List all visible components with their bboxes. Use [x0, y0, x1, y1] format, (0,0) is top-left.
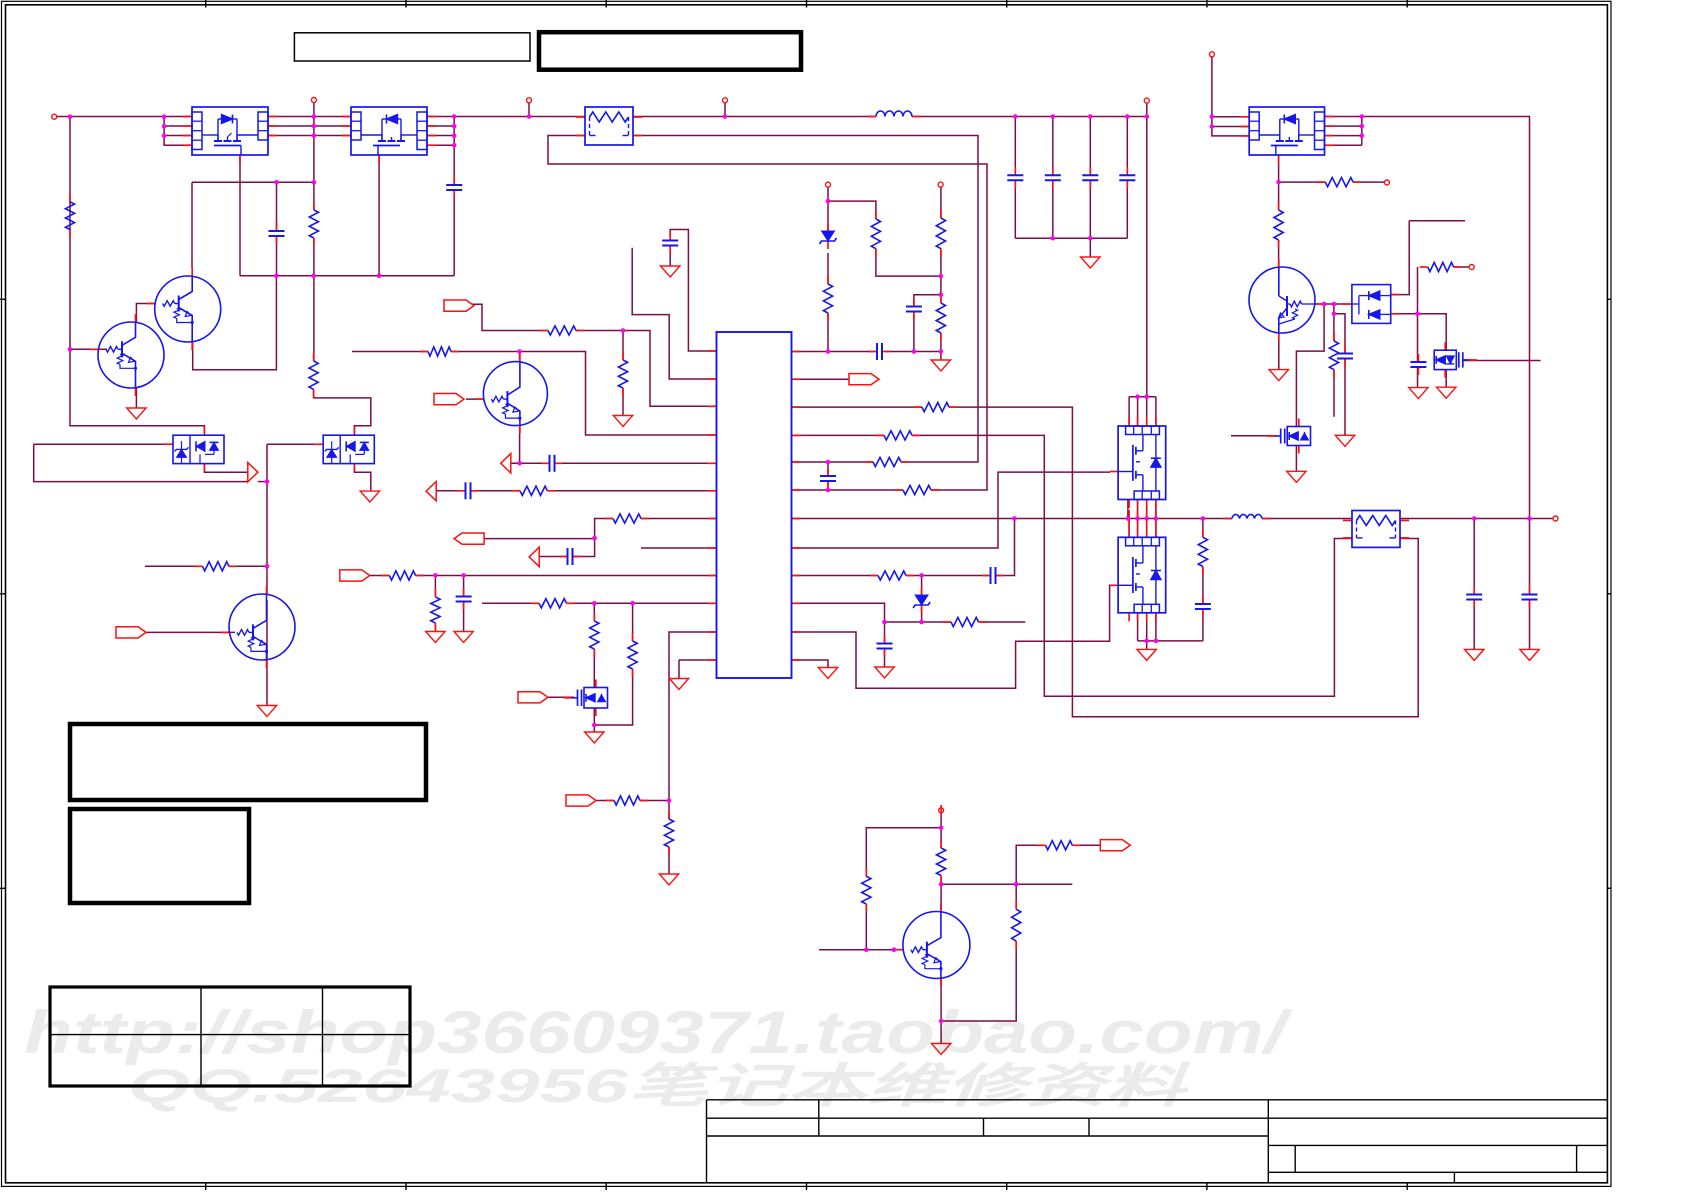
junction n17	[527, 114, 532, 119]
wire w125	[1202, 609, 1204, 641]
wire w26	[427, 144, 454, 146]
resistor R19	[420, 351, 428, 353]
transistor Q5	[221, 631, 229, 633]
junction n69	[1201, 516, 1206, 521]
resistor R14	[632, 633, 634, 641]
wire w64	[940, 352, 942, 361]
wire w112	[436, 490, 465, 492]
wire w156	[819, 949, 903, 951]
resistor R1	[65, 202, 74, 230]
wire w105	[352, 351, 428, 353]
resistor R35	[1428, 262, 1454, 271]
wire w129	[1529, 600, 1531, 650]
wire w35	[1014, 180, 1016, 238]
wire w49	[827, 462, 829, 476]
wire w1	[57, 116, 192, 118]
wire w171	[204, 464, 247, 473]
dual diode D7	[1352, 285, 1391, 324]
wire w79	[1353, 181, 1384, 183]
resistor R1	[69, 194, 71, 202]
resistor R13	[593, 613, 595, 621]
wire w55	[827, 313, 829, 352]
junction n33	[826, 199, 831, 204]
wire w174	[313, 276, 315, 361]
junction n64	[1012, 516, 1017, 521]
wire w112	[792, 472, 1111, 548]
wire w125	[641, 547, 717, 549]
zener diode D1	[822, 231, 835, 241]
wire w87	[1333, 370, 1335, 417]
wire w97	[1445, 370, 1447, 388]
wire w60	[914, 295, 941, 307]
wire w116	[641, 518, 717, 520]
wire w86	[1334, 314, 1345, 354]
wire w18	[453, 190, 455, 276]
wire w30	[633, 116, 876, 118]
junction n11	[311, 273, 316, 278]
wire w126	[482, 602, 539, 604]
junction n29	[1360, 114, 1365, 119]
junction n3	[162, 124, 167, 129]
resistor R5	[823, 284, 832, 313]
junction n47	[919, 573, 924, 578]
wire w127	[567, 602, 717, 604]
wire w162	[940, 979, 942, 1044]
wire w134	[792, 378, 850, 380]
transistor Q2	[155, 276, 221, 342]
wire w74	[1325, 144, 1362, 146]
wire w113	[471, 490, 520, 492]
resistor R19	[428, 347, 451, 356]
fuse F1	[576, 116, 585, 118]
wire w123	[463, 576, 465, 597]
mosfet U3	[1249, 107, 1324, 155]
junction n5	[312, 114, 317, 119]
wire w169	[34, 444, 249, 481]
wire w38	[1089, 117, 1091, 176]
wire w135	[640, 800, 669, 802]
junction n41	[517, 461, 522, 466]
wire w72	[1325, 125, 1362, 127]
resistor R23	[381, 575, 389, 577]
zener diode D2	[921, 587, 923, 595]
inductor L1	[876, 111, 912, 117]
zener diode D1	[827, 223, 829, 231]
capacitor C17	[549, 455, 551, 472]
junction n39	[517, 349, 522, 354]
resistor R27	[922, 403, 949, 412]
wire w52	[886, 351, 941, 353]
wire w68	[1212, 57, 1249, 136]
resistor R18	[1012, 909, 1021, 941]
wire w130	[912, 435, 1352, 696]
transistor Q6	[895, 949, 903, 951]
wire w155	[865, 904, 867, 950]
wire w47	[633, 136, 978, 463]
junction n8	[312, 180, 317, 185]
capacitor C10	[877, 643, 893, 645]
wire w81	[1409, 220, 1465, 222]
wire w157	[941, 883, 1072, 885]
wire w67	[632, 248, 716, 379]
junction n34	[939, 274, 944, 279]
wire w170	[258, 481, 267, 483]
wire w148	[884, 649, 886, 668]
label box 4	[70, 809, 249, 903]
wire w50	[827, 481, 829, 490]
wire w23	[427, 116, 454, 118]
wire w128	[1529, 519, 1531, 595]
label box 2	[539, 32, 801, 69]
wire w15	[276, 237, 278, 276]
wire w144	[996, 519, 1015, 576]
resistor R21	[512, 490, 520, 492]
wire w58	[940, 187, 942, 218]
capacitor C11	[1195, 603, 1211, 605]
pin	[52, 114, 57, 119]
capacitor C17	[542, 462, 550, 464]
current sense resistor R40	[1343, 520, 1352, 522]
wire w37	[1052, 180, 1054, 238]
wire w114	[547, 490, 716, 492]
wire w104	[622, 388, 624, 416]
wire w54	[827, 253, 829, 284]
IC U4 charger controller	[717, 332, 792, 678]
wire w123	[1202, 519, 1204, 538]
wire w116	[1155, 519, 1157, 538]
capacitor C1	[269, 230, 285, 232]
wire w63	[940, 333, 942, 352]
wire w21	[136, 304, 154, 323]
capacitor C6	[1089, 167, 1091, 175]
resistor R17	[937, 848, 946, 876]
capacitor C12	[1473, 587, 1475, 595]
junction n63	[1144, 394, 1149, 399]
wire w164	[266, 444, 268, 594]
resistor R3	[871, 219, 880, 249]
wire w126	[1473, 519, 1475, 595]
wire w95	[1417, 367, 1419, 387]
junction n68	[1154, 516, 1159, 521]
capacitor C2	[453, 177, 455, 185]
wire w168	[34, 443, 165, 445]
wire w175	[354, 464, 370, 492]
wire w151	[979, 621, 1026, 623]
junction n16	[452, 143, 457, 148]
capacitor C4	[1007, 174, 1023, 176]
resistor R25	[614, 796, 640, 805]
resistor R11	[1202, 529, 1204, 537]
wire w10	[313, 103, 315, 211]
wire w56	[828, 201, 876, 219]
junction n71	[1527, 516, 1532, 521]
junction n60	[1332, 312, 1337, 317]
resistor R21	[520, 486, 547, 495]
wire w138	[668, 847, 670, 874]
wire w132	[949, 407, 1418, 717]
resistor R31	[195, 565, 203, 567]
junction n14	[452, 124, 457, 129]
mosfet Q14	[1468, 359, 1477, 361]
port	[444, 300, 474, 311]
capacitor C14	[456, 596, 472, 598]
current sense resistor R40	[1352, 511, 1400, 548]
wire w152	[940, 813, 942, 848]
wire w107	[1129, 396, 1156, 398]
wire w118	[539, 556, 567, 558]
mosfet U1	[192, 107, 268, 155]
wire w99	[1295, 446, 1297, 472]
wire w9	[268, 135, 351, 137]
wire w100	[792, 518, 1233, 520]
wire w163	[146, 631, 235, 633]
wire w119	[1146, 613, 1148, 641]
transistor Q1	[90, 348, 98, 350]
junction n26	[1088, 236, 1093, 241]
wire w106	[1155, 397, 1157, 426]
resistor R12	[431, 597, 440, 623]
wire w42	[1015, 237, 1127, 239]
capacitor C21	[876, 343, 878, 360]
wire w129	[593, 649, 595, 688]
wire w145	[921, 576, 923, 596]
wire w61	[913, 312, 915, 352]
transistor Q1	[98, 322, 164, 388]
wire w29	[454, 116, 585, 118]
junction n76	[826, 460, 831, 465]
wire w106	[451, 352, 717, 436]
junction n7	[312, 133, 317, 138]
IC U4 pins	[708, 350, 717, 352]
wire w102	[1400, 518, 1553, 520]
junction n70	[1472, 516, 1477, 521]
wire w143	[906, 575, 991, 577]
wire w12	[192, 181, 314, 183]
wire w102	[576, 331, 717, 407]
resistor R7	[622, 352, 624, 360]
junction n27	[1210, 115, 1215, 120]
wire w96	[1463, 360, 1541, 362]
resistor R16	[865, 868, 867, 876]
resistor R30	[903, 485, 931, 494]
wire w20	[193, 276, 277, 370]
wire w19	[453, 117, 455, 186]
wire w120	[1155, 613, 1157, 641]
capacitor C16	[1344, 346, 1346, 354]
wire w159	[1072, 844, 1100, 846]
wire w25	[427, 135, 454, 137]
junction n42	[592, 536, 597, 541]
resistor R32	[870, 575, 878, 577]
resistor R3	[875, 211, 877, 219]
junction n57	[939, 1019, 944, 1024]
resistor R9	[1274, 210, 1283, 240]
zener diode D2	[915, 595, 928, 605]
ground	[127, 408, 146, 419]
wire w101	[1262, 518, 1352, 520]
wire w109	[466, 398, 484, 400]
junction n40	[621, 328, 626, 333]
wire w165	[266, 600, 268, 706]
svg-text:QQ.52643956笔记本维修资料: QQ.52643956笔记本维修资料	[128, 1059, 1192, 1112]
wire w121	[434, 576, 436, 598]
wire w92	[1454, 266, 1469, 268]
junction n55	[939, 882, 944, 887]
label box 1	[294, 33, 530, 61]
wire w6	[70, 348, 107, 350]
wire w142	[792, 575, 879, 577]
capacitor C12	[1466, 594, 1482, 596]
resistor R14	[628, 641, 637, 669]
resistor R29	[873, 457, 901, 466]
wire w34	[1014, 117, 1016, 176]
wire w139	[679, 659, 717, 661]
wire w108	[519, 427, 521, 463]
junction n73	[1154, 639, 1159, 644]
resistor R6	[940, 295, 942, 303]
wire w113	[1128, 519, 1130, 538]
revision table	[50, 987, 410, 1086]
junction n56	[1014, 882, 1019, 887]
ESD array D6	[323, 435, 374, 463]
wire w75	[1361, 117, 1363, 146]
wire w136	[669, 632, 717, 801]
wire w109	[1137, 500, 1139, 519]
transistor Q6	[903, 912, 970, 979]
wire w124	[1202, 567, 1204, 605]
junction n28	[1210, 124, 1215, 129]
junction n35	[939, 293, 944, 298]
inductor L1	[867, 116, 876, 118]
junction n44	[461, 573, 466, 578]
wire w134	[595, 800, 614, 802]
capacitor C6	[1082, 174, 1098, 176]
mosfet Q14	[1434, 350, 1456, 369]
mosfet Q12	[1267, 435, 1276, 437]
wire w73	[1325, 135, 1362, 137]
svg-text:http://shop36609371.taobao.com: http://shop36609371.taobao.com/	[24, 999, 1293, 1066]
capacitor C7	[1119, 174, 1135, 176]
capacitor C14	[463, 589, 465, 597]
resistor R28	[884, 431, 912, 440]
fuse F1	[585, 107, 633, 145]
resistor R29	[865, 461, 873, 463]
mosfet Q12	[1287, 427, 1310, 446]
wire w121	[1138, 640, 1203, 642]
wire w88	[1344, 358, 1346, 435]
capacitor C5	[1045, 174, 1061, 176]
wire w117	[573, 539, 595, 557]
wire w41	[1126, 180, 1128, 238]
wire w4	[164, 135, 192, 137]
transistor Q5	[229, 594, 295, 660]
wire w91	[1417, 267, 1419, 314]
wire w103	[622, 331, 624, 361]
resistor R17	[940, 840, 942, 848]
wire w59	[940, 249, 942, 295]
wire w93	[1418, 314, 1447, 351]
junction n18	[723, 114, 728, 119]
junction n59	[1332, 302, 1337, 307]
resistor R15	[668, 811, 670, 819]
wire w78	[1279, 181, 1326, 183]
wire w44	[1146, 117, 1148, 397]
wire w7	[268, 116, 351, 118]
label box 3	[70, 724, 426, 800]
wire w71	[1325, 116, 1362, 118]
wire w104	[1137, 397, 1139, 426]
wire w2	[164, 117, 192, 146]
capacitor C20	[990, 567, 992, 584]
wire w132	[547, 696, 574, 698]
border zone ticks	[205, 0, 207, 8]
ESD array D5	[173, 435, 224, 463]
resistor R11	[1198, 537, 1207, 566]
wire w120	[416, 575, 717, 577]
wire w77	[1278, 155, 1280, 210]
wire w103	[1128, 397, 1130, 426]
junction n46	[630, 601, 635, 606]
resistor R2	[309, 210, 318, 238]
wire w14	[276, 182, 278, 231]
resistor R7	[618, 360, 627, 388]
inductor L2	[1232, 514, 1262, 518]
capacitor C16	[1337, 353, 1353, 355]
mosfet U2	[351, 107, 427, 155]
junction n65	[1126, 516, 1131, 521]
resistor R24	[539, 599, 567, 608]
wire w94	[1417, 314, 1419, 362]
capacitor C11	[1202, 596, 1204, 604]
wire w28	[528, 103, 530, 117]
wire w66	[669, 246, 671, 267]
resistor R15	[664, 819, 673, 847]
mosfet Q11 low-side	[1118, 537, 1166, 613]
junction n72	[1144, 639, 1149, 644]
junction n9	[274, 180, 279, 185]
resistor R22	[613, 514, 641, 523]
junction n23	[1125, 114, 1130, 119]
resistor R5	[827, 276, 829, 284]
junction n74	[265, 479, 270, 484]
wire w133	[593, 708, 595, 732]
junction n45	[592, 601, 597, 606]
resistor R8	[313, 353, 315, 361]
capacitor C8	[913, 299, 915, 307]
wire w101	[471, 304, 548, 330]
wire w3	[164, 125, 192, 127]
capacitor C13	[1529, 587, 1531, 595]
package pins	[183, 116, 192, 118]
wire w65	[670, 230, 716, 352]
resistor R24	[531, 602, 539, 604]
wire w166	[145, 565, 203, 567]
junction n20	[1013, 114, 1018, 119]
capacitor C3	[669, 233, 671, 241]
wire w122	[1146, 641, 1148, 650]
junction n75	[265, 564, 270, 569]
wire w105	[1146, 397, 1148, 426]
resistor R10	[1329, 341, 1338, 370]
resistor R33	[943, 621, 951, 623]
wire w128	[593, 603, 595, 621]
resistor R16	[862, 876, 871, 904]
wire w13	[191, 182, 193, 268]
wire w110	[511, 462, 550, 464]
wire w141	[792, 660, 829, 668]
resistor R25	[606, 800, 614, 802]
junction n36	[826, 349, 831, 354]
